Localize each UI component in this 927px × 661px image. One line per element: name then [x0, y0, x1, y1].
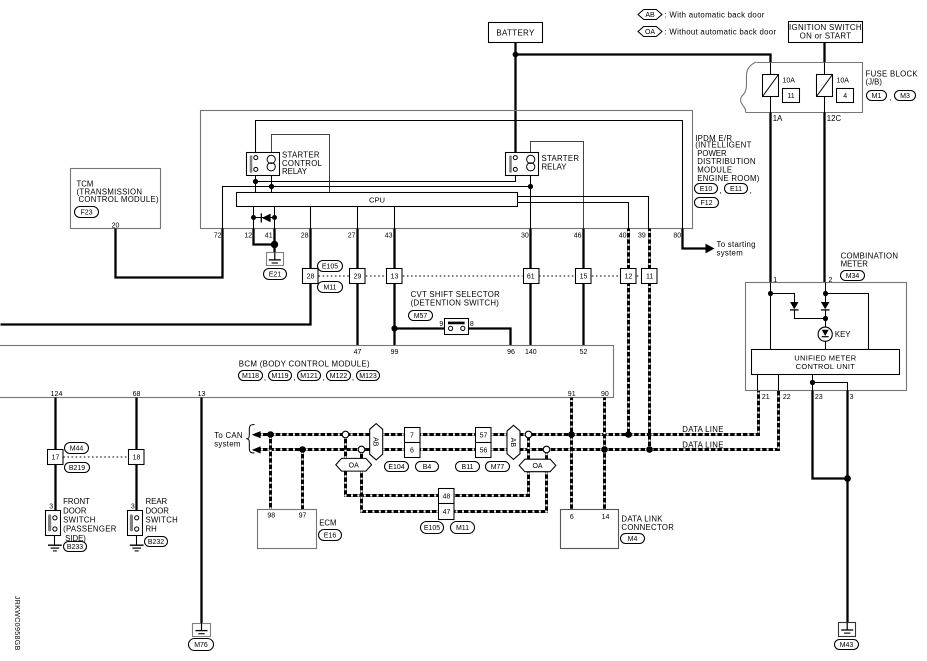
- connector E11: [719, 184, 751, 196]
- wire fuse2 leads inside block: [824, 63, 826, 113]
- svg-text:11: 11: [646, 274, 653, 281]
- svg-text:13: 13: [391, 274, 399, 281]
- wire unified meter to pin 22: [778, 375, 780, 391]
- svg-text:98: 98: [267, 512, 275, 519]
- connector M77: [486, 462, 510, 472]
- wire CPU to terminal 28: [310, 207, 312, 229]
- ECM box: [258, 510, 317, 549]
- svg-text:23: 23: [815, 394, 823, 401]
- KEY label: [835, 330, 851, 339]
- BCM terminal labels bottom: [51, 391, 609, 398]
- svg-text:11: 11: [787, 93, 794, 100]
- wire terminal 46 to connector 15: [582, 229, 584, 269]
- svg-text:BCM (BODY CONTROL MODULE): BCM (BODY CONTROL MODULE): [239, 360, 370, 369]
- wire connector 11 to CAN line: [648, 284, 651, 450]
- wire BCM 124 to connector 17: [54, 398, 56, 450]
- svg-text:97: 97: [299, 512, 307, 519]
- rear door switch symbol: [128, 511, 143, 536]
- wire connector 18 to rear door switch: [135, 465, 137, 511]
- svg-text:2: 2: [829, 277, 833, 284]
- connector box 15: [576, 269, 592, 284]
- dotted link 17 to 18: [63, 456, 128, 458]
- wire unified meter to pin 21: [757, 375, 759, 391]
- svg-text:12C: 12C: [827, 114, 842, 123]
- KEY indicator lamp: [818, 327, 832, 341]
- BCM terminal labels top: [354, 349, 588, 356]
- svg-text:47: 47: [354, 349, 362, 356]
- ground M43 symbol: [839, 623, 856, 637]
- CVT shift selector label: [411, 290, 501, 307]
- data line label 1: [682, 425, 723, 434]
- IPDM E/R label: [695, 134, 760, 183]
- svg-text:56: 56: [480, 448, 488, 455]
- svg-text:(PASSENGER: (PASSENGER: [63, 525, 117, 534]
- wire terminal 30 to connector 61: [529, 229, 531, 269]
- node pin2 junction: [823, 291, 828, 296]
- wire terminal 41 to ground E21: [273, 229, 275, 253]
- svg-text:28: 28: [307, 274, 315, 281]
- svg-text:JRKWC0958GB: JRKWC0958GB: [13, 596, 21, 651]
- wire terminal 27 to connector 29: [356, 229, 358, 269]
- node battery junction: [513, 52, 519, 58]
- svg-text:M119: M119: [272, 373, 289, 380]
- connector box 57: [476, 428, 492, 443]
- node connector 11 junction: [646, 446, 653, 453]
- arrow CAN line 2: [252, 446, 261, 453]
- svg-text:M44: M44: [70, 445, 84, 452]
- svg-text:M11: M11: [323, 284, 336, 291]
- node option split line1 left: [342, 431, 349, 438]
- connector M44: [65, 443, 89, 454]
- rear door switch label: [146, 497, 179, 534]
- wire diode D2 to key node: [795, 310, 826, 319]
- svg-text:RELAY: RELAY: [542, 162, 568, 171]
- hexagon AB left: [370, 424, 383, 460]
- svg-text:41: 41: [265, 232, 273, 239]
- connector box 17: [48, 450, 64, 465]
- wire terminal 28 to connector 28: [309, 229, 311, 269]
- connector box 12: [621, 269, 637, 284]
- svg-text:99: 99: [391, 349, 399, 356]
- svg-text:6: 6: [410, 448, 414, 455]
- wire ignition to fuse block: [823, 43, 825, 63]
- connector E10: [695, 184, 718, 194]
- connector M3: [890, 91, 916, 103]
- connector M4: [621, 534, 645, 544]
- svg-text:,: ,: [890, 93, 892, 102]
- svg-text:M1: M1: [872, 93, 882, 100]
- svg-text:,: ,: [264, 373, 266, 382]
- connector box 29: [350, 269, 366, 284]
- svg-text:DOOR: DOOR: [63, 506, 87, 515]
- connector box 11: [642, 269, 658, 284]
- connector row dotted links: [319, 275, 642, 277]
- CAN data line 2 to meter 22: [259, 391, 779, 450]
- svg-text:E104: E104: [388, 464, 404, 471]
- connector M123: [352, 371, 380, 383]
- IPDM E/R box: [201, 111, 693, 229]
- wire BCM 99 branch to CVT switch: [395, 327, 445, 329]
- connector M57: [409, 311, 433, 321]
- wire terminal 39 to connector 11 data: [648, 229, 651, 269]
- ECM label: [319, 519, 336, 528]
- svg-text:BATTERY: BATTERY: [496, 28, 535, 37]
- svg-text:72: 72: [214, 232, 222, 239]
- fuse F1 10A: [763, 75, 796, 97]
- svg-text:B233: B233: [67, 544, 83, 551]
- svg-text:M77: M77: [491, 464, 505, 471]
- svg-text:ENGINE ROOM): ENGINE ROOM): [697, 174, 760, 183]
- wire CPU to terminal 40: [518, 203, 629, 229]
- svg-text:RELAY: RELAY: [282, 167, 308, 176]
- svg-text:RH: RH: [146, 525, 157, 534]
- meter bottom terminal labels: [762, 394, 854, 401]
- CPU box: [237, 193, 518, 207]
- IPDM terminal labels: [214, 232, 682, 239]
- terminal 20: [112, 222, 120, 229]
- TCM label: [77, 179, 160, 204]
- svg-text:12: 12: [244, 232, 252, 239]
- svg-text:12: 12: [625, 274, 633, 281]
- wire BCM 91 to data link connector 6: [570, 398, 573, 510]
- ground M76 symbol: [193, 623, 211, 636]
- svg-text:AB: AB: [645, 12, 655, 19]
- data link connector label: [621, 515, 674, 532]
- svg-text:M122: M122: [330, 373, 348, 380]
- terminal 9: [439, 321, 443, 328]
- svg-text:system: system: [214, 439, 241, 448]
- connector box 7: [405, 428, 421, 443]
- fuse F1 number box 11: [783, 89, 800, 103]
- hexagon OA right: [519, 459, 556, 472]
- svg-text:,: ,: [323, 373, 325, 382]
- to CAN system label: [214, 431, 243, 449]
- wire CVT switch to BCM 96: [469, 329, 511, 346]
- node starter relay coil junction: [528, 184, 533, 189]
- CVT detention switch symbol: [445, 319, 469, 335]
- connector M122: [323, 371, 351, 383]
- connector M11 lower: [451, 522, 475, 534]
- svg-text:52: 52: [580, 349, 588, 356]
- svg-text:43: 43: [385, 232, 393, 239]
- svg-text:68: 68: [133, 391, 141, 398]
- svg-text:ECM: ECM: [319, 519, 336, 528]
- svg-text:,: ,: [719, 186, 721, 195]
- svg-text:M121: M121: [300, 373, 318, 380]
- connector E105 lower: [421, 522, 444, 534]
- svg-text:M76: M76: [194, 642, 208, 649]
- BCM label: [239, 360, 370, 369]
- terminal 1: [773, 277, 777, 284]
- svg-text:F12: F12: [700, 200, 712, 207]
- node BCM 90 junction: [601, 446, 608, 453]
- svg-text:E105: E105: [322, 263, 338, 270]
- wire meter 23 to ground: [813, 391, 848, 479]
- svg-text:48: 48: [443, 494, 451, 501]
- wire contact crossbar to starter relay: [256, 176, 516, 182]
- svg-text:57: 57: [480, 433, 488, 440]
- connector E16: [319, 530, 342, 541]
- wire terminal 43 to connector 13: [393, 229, 395, 269]
- svg-text:FRONT: FRONT: [63, 497, 90, 506]
- wire starter relay coil enclosure to terminal 46: [531, 142, 584, 229]
- svg-text:30: 30: [521, 232, 529, 239]
- wire pin1 branch to diode: [771, 294, 795, 303]
- svg-text:46: 46: [574, 232, 582, 239]
- connector box 6: [405, 443, 421, 458]
- svg-text:,: ,: [293, 373, 295, 382]
- DLC terminal labels: [570, 514, 610, 521]
- svg-text:80: 80: [673, 232, 681, 239]
- svg-text:: With automatic back door: : With automatic back door: [665, 10, 765, 19]
- ground rear door switch: [130, 545, 144, 551]
- svg-text:B232: B232: [148, 539, 164, 546]
- svg-text:96: 96: [507, 349, 515, 356]
- node option split line1 right: [525, 431, 532, 438]
- TCM box: [71, 169, 161, 229]
- svg-text:CONNECTOR: CONNECTOR: [621, 523, 674, 532]
- svg-text:3: 3: [850, 394, 854, 401]
- starter control relay symbol: [247, 153, 280, 176]
- svg-text:E21: E21: [269, 271, 282, 278]
- node BCM 91 junction: [568, 431, 575, 438]
- svg-text:10A: 10A: [837, 78, 850, 85]
- fuse block J/B outline: [741, 62, 863, 113]
- svg-text:9: 9: [439, 321, 443, 328]
- starter control relay label: [282, 151, 323, 176]
- wire connector 61 to BCM 140: [529, 284, 531, 346]
- connector box 56: [476, 443, 492, 458]
- wire diode D3 to KEY lamp: [825, 310, 827, 328]
- wire terminal 12 to ground: [254, 229, 275, 245]
- svg-text:124: 124: [51, 391, 63, 398]
- connector box 48: [439, 489, 455, 504]
- svg-text:system: system: [717, 248, 744, 257]
- connector B219: [65, 463, 90, 473]
- connector E21: [264, 269, 287, 280]
- wire ECM 97 CAN: [301, 450, 304, 510]
- wire CPU to terminal 41: [274, 207, 276, 229]
- BCM box: [0, 346, 614, 398]
- svg-text:14: 14: [602, 514, 610, 521]
- wire starter control relay contact to terminal 80 loop: [256, 121, 683, 229]
- connector E104: [385, 462, 409, 472]
- wire terminal 40 to connector 12 data: [627, 229, 630, 269]
- wire pin2 branch right: [826, 294, 869, 350]
- wire CPU to terminal 39: [518, 197, 649, 229]
- svg-text:ON or START: ON or START: [800, 32, 852, 41]
- svg-text:47: 47: [443, 509, 451, 516]
- svg-text:13: 13: [198, 391, 206, 398]
- svg-text:KEY: KEY: [835, 330, 851, 339]
- svg-text:CONTROL MODULE): CONTROL MODULE): [79, 195, 160, 204]
- svg-text:B4: B4: [423, 464, 432, 471]
- fuse F2 number box 4: [837, 89, 854, 103]
- connector M1: [867, 91, 887, 101]
- svg-text:,: ,: [750, 186, 752, 195]
- terminal 1A: [773, 114, 783, 123]
- svg-text:M34: M34: [846, 273, 860, 280]
- combination meter label: [841, 251, 899, 268]
- front door switch symbol: [46, 511, 61, 536]
- wire fuse1 leads inside block: [770, 63, 772, 113]
- wire meter 3 to ground M43: [846, 391, 848, 623]
- svg-text:20: 20: [112, 222, 120, 229]
- svg-text:27: 27: [348, 232, 356, 239]
- battery B+ box: [489, 23, 543, 43]
- wire battery feed to fuse block: [516, 55, 771, 63]
- legend hexagon AB: [638, 10, 765, 20]
- wire coil bus to terminal 72: [223, 187, 531, 229]
- wire OA loop 48: [346, 435, 529, 496]
- terminal 3 rear door switch: [131, 503, 135, 510]
- svg-text:E105: E105: [424, 525, 440, 532]
- terminal 3 front door switch: [49, 503, 53, 510]
- connector M118: [239, 371, 263, 381]
- combination meter box: [746, 283, 907, 391]
- front door switch label: [63, 497, 117, 543]
- connector M76: [189, 639, 214, 651]
- wire CPU to terminal 12: [253, 207, 255, 229]
- wire connector 17 to front door switch: [54, 465, 56, 511]
- node option split line2 left: [358, 446, 365, 453]
- wire CPU to terminal 43: [394, 207, 396, 229]
- svg-text:E16: E16: [324, 532, 337, 539]
- svg-text:29: 29: [354, 274, 362, 281]
- diode D2: [790, 302, 799, 310]
- svg-text:(J/B): (J/B): [866, 77, 883, 86]
- terminal 2: [829, 277, 833, 284]
- svg-text:AB: AB: [509, 438, 516, 448]
- connector B233: [64, 542, 87, 552]
- svg-text:METER: METER: [841, 260, 869, 269]
- node option split line2 right: [543, 446, 550, 453]
- svg-text:140: 140: [525, 349, 537, 356]
- wire connector 13 to BCM 99: [393, 284, 395, 346]
- svg-text:18: 18: [133, 455, 141, 462]
- connector M43: [835, 640, 859, 650]
- connector F12: [695, 198, 719, 208]
- connector M11: [318, 282, 343, 293]
- connector M119: [264, 371, 292, 383]
- CAN data line 1 to meter 21: [259, 391, 759, 435]
- svg-text:6: 6: [570, 514, 574, 521]
- svg-text:,: ,: [352, 373, 354, 382]
- wire BCM 13 to ground M76: [200, 398, 202, 624]
- wire fuse 12C to combination meter pin 2: [823, 113, 825, 283]
- fuse block label: [866, 69, 919, 86]
- starter relay label: [542, 154, 580, 171]
- diode D3: [821, 302, 830, 310]
- svg-text:(DETENTION SWITCH): (DETENTION SWITCH): [411, 299, 500, 308]
- svg-text:M118: M118: [242, 373, 259, 380]
- svg-text:M11: M11: [456, 525, 469, 532]
- wire starter control relay coil enclosure to CPU: [272, 135, 330, 193]
- terminal 12C: [827, 114, 842, 123]
- svg-text:M4: M4: [628, 536, 638, 543]
- svg-text:: Without automatic back door: : Without automatic back door: [665, 27, 777, 36]
- wire OA loop 47: [362, 450, 547, 512]
- wire ECM 98 CAN: [269, 435, 272, 510]
- wire connector 28 to BCM harness left: [1, 284, 311, 325]
- svg-text:7: 7: [410, 433, 414, 440]
- ECM terminal labels: [267, 512, 306, 519]
- svg-text:21: 21: [762, 394, 770, 401]
- svg-text:3: 3: [131, 503, 135, 510]
- data line label 2: [682, 441, 723, 450]
- connector F23: [75, 207, 99, 218]
- svg-text:39: 39: [638, 232, 646, 239]
- svg-text:15: 15: [580, 274, 588, 281]
- wire starter relay coil to terminal 30: [530, 176, 532, 229]
- wire connector 15 to BCM 52: [582, 284, 584, 346]
- diode D1 across terminals 12 and 41: [251, 213, 277, 222]
- legend hexagon OA: [638, 27, 776, 37]
- wire fuse 1A to combination meter pin 1: [769, 113, 771, 283]
- node coil bus junction: [269, 184, 274, 189]
- svg-text:40: 40: [619, 232, 627, 239]
- svg-text:1A: 1A: [773, 114, 783, 123]
- svg-text:10A: 10A: [783, 78, 796, 85]
- connector M121: [293, 371, 320, 383]
- to starting system label: [717, 240, 756, 257]
- svg-text:AB: AB: [372, 437, 379, 447]
- svg-text:DOOR: DOOR: [146, 506, 170, 515]
- svg-text:CPU: CPU: [369, 196, 385, 205]
- ignition switch box: [789, 22, 863, 43]
- node ECM 98 junction: [267, 431, 274, 438]
- wire meter pin2 internal: [825, 283, 827, 303]
- ground front door switch: [48, 545, 62, 551]
- starter relay symbol: [506, 153, 539, 176]
- wire terminal 80 to starting system: [683, 229, 715, 254]
- fuse F2 10A: [817, 75, 850, 97]
- node branch junction on 99 wire: [391, 325, 397, 331]
- wire front door switch to ground: [54, 536, 56, 545]
- connector E105: [318, 261, 343, 272]
- unified meter control unit box: [752, 350, 900, 375]
- wire control relay contact to CPU: [255, 176, 257, 193]
- connector box 61: [524, 269, 540, 284]
- ground E21 symbol: [267, 252, 284, 265]
- wire battery down to starter relay: [514, 43, 516, 153]
- brace: [246, 425, 254, 454]
- connector box 13: [387, 269, 403, 284]
- svg-text:M123: M123: [359, 373, 377, 380]
- node key junction: [823, 316, 828, 321]
- wire branch to pin 3: [813, 383, 848, 391]
- svg-text:F23: F23: [80, 209, 92, 216]
- connector box 18: [129, 450, 145, 465]
- node ECM 97 junction: [299, 446, 306, 453]
- diagram id JRKWC0958GB: [13, 596, 21, 651]
- arrow CAN line 1: [252, 431, 261, 438]
- node ground junction: [271, 241, 278, 248]
- connector box 47: [439, 504, 455, 520]
- wire BCM 68 to connector 18: [135, 398, 137, 450]
- svg-text:CONTROL UNIT: CONTROL UNIT: [796, 362, 856, 371]
- wire TCM 20 to IPDM 72: [116, 229, 223, 278]
- svg-text:SWITCH: SWITCH: [63, 516, 96, 525]
- svg-text:8: 8: [470, 321, 474, 328]
- node pin3 branch junction: [810, 380, 815, 385]
- svg-text:1: 1: [773, 277, 777, 284]
- svg-text:M3: M3: [900, 93, 910, 100]
- svg-text:E10: E10: [700, 186, 713, 193]
- wire meter pin1 internal: [770, 283, 772, 350]
- node connector 12 junction: [625, 431, 632, 438]
- wire connector 29 to BCM 47: [356, 284, 358, 346]
